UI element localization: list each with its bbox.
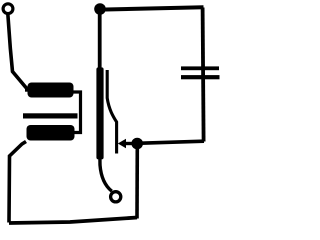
wire T1 to winding L1 [8, 14, 28, 91]
wire node A to right rail [141, 141, 204, 143]
wire L2 left end down to bottom rail [9, 142, 26, 223]
node A [131, 138, 143, 150]
transformer core [23, 113, 78, 118]
transformer winding L1 [25, 88, 28, 91]
wire bottom rail up to node A [135, 147, 139, 219]
terminal T1 (top-left input) [3, 4, 13, 14]
node B [94, 3, 106, 15]
terminal T2 (output) [111, 192, 121, 202]
wire L1 right end down to L2 right end [72, 92, 81, 133]
wire Q1 base bottom to terminal T2 [100, 156, 112, 191]
transistor Q1 emitter arrow [125, 142, 134, 145]
wire bottom rail [9, 218, 137, 224]
wire top rail [100, 7, 204, 9]
transistor Q1 emitter electrode [107, 70, 116, 154]
capacitor C1 [181, 66, 219, 70]
transistor Q1 base bar [96, 67, 103, 159]
wire right rail (through capacitor) [203, 8, 204, 142]
transformer winding L2 [27, 125, 75, 141]
wire node B down to Q1 base bar [98, 13, 102, 68]
